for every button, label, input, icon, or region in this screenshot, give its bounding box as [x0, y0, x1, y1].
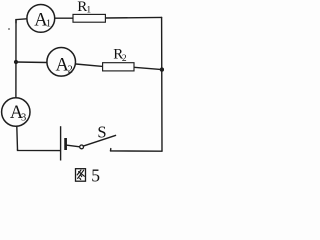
wire bottom-left to battery	[18, 150, 60, 151]
battery short plate	[64, 138, 67, 150]
junction node row2 left	[14, 60, 18, 64]
wire right vertical	[161, 17, 163, 151]
wire battery to switch pivot	[67, 145, 80, 147]
svg-text:2: 2	[68, 65, 73, 76]
switch blade	[83, 135, 115, 146]
switch S	[80, 122, 116, 148]
wire A2 to R2	[76, 64, 103, 66]
ammeter A2	[47, 48, 76, 77]
wire R1 to top-right corner	[105, 16, 161, 19]
svg-text:2: 2	[122, 54, 127, 64]
svg-text:5: 5	[91, 166, 100, 186]
wire R2 to right vertical	[134, 67, 162, 69]
wire left vertical lower	[16, 126, 19, 149]
svg-text:3: 3	[21, 113, 26, 124]
wire switch to bottom-right corner	[111, 150, 163, 152]
caption 图 5	[76, 169, 86, 182]
wire switch contact tick	[110, 149, 112, 151]
ammeter A3	[2, 98, 30, 126]
wire top-left to A1	[16, 19, 27, 23]
battery cell	[61, 126, 66, 160]
resistor R1	[73, 0, 105, 22]
wire node row2 left to A2	[16, 61, 47, 64]
resistor R2	[103, 47, 134, 71]
battery long plate	[60, 126, 62, 160]
svg-text:1: 1	[46, 19, 51, 30]
stray speck	[8, 28, 10, 30]
junction node row2 right	[160, 67, 164, 71]
ammeter A1	[27, 5, 55, 33]
wire A1 to R1	[55, 17, 73, 19]
svg-text:1: 1	[86, 6, 91, 16]
wire left vertical upper	[15, 20, 17, 98]
svg-text:S: S	[97, 122, 106, 141]
